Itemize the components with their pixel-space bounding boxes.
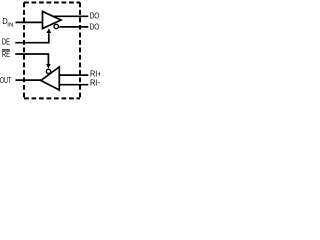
- svg-text:IN: IN: [7, 22, 13, 28]
- svg-text:DE: DE: [2, 38, 10, 47]
- svg-text:DO: DO: [90, 23, 100, 32]
- svg-text:RI−: RI−: [90, 79, 100, 88]
- svg-text:RE: RE: [2, 50, 10, 59]
- svg-text:DO: DO: [90, 12, 100, 21]
- svg-text:RI+: RI+: [90, 69, 100, 78]
- svg-text:OUT: OUT: [0, 76, 11, 85]
